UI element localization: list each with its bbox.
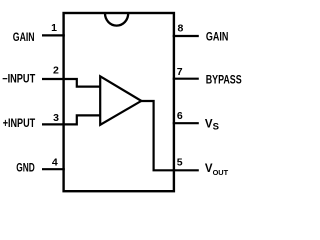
svg-text:VS: VS	[205, 118, 219, 132]
pin-1 end notch	[105, 13, 128, 25]
svg-text:8: 8	[178, 23, 184, 35]
svg-text:4: 4	[52, 157, 58, 169]
svg-text:−INPUT: −INPUT	[2, 74, 35, 86]
svg-text:6: 6	[177, 110, 183, 122]
svg-text:VOUT: VOUT	[205, 163, 229, 177]
pin 7 lead	[173, 78, 199, 80]
IC U1 DIP-8 package body	[64, 13, 174, 191]
svg-text:2: 2	[53, 64, 59, 76]
pin 2 lead and internal wire to inverting input	[42, 79, 101, 87]
svg-text:5: 5	[177, 156, 183, 168]
svg-text:7: 7	[177, 66, 183, 78]
svg-text:3: 3	[53, 112, 59, 124]
svg-text:BYPASS: BYPASS	[206, 75, 242, 87]
svg-text:GND: GND	[16, 163, 35, 175]
pin 6 lead	[173, 122, 199, 124]
pin 4 lead	[42, 168, 65, 170]
svg-text:GAIN: GAIN	[13, 32, 35, 44]
op-amp A1 triangle	[100, 76, 141, 125]
pin 8 lead	[173, 35, 199, 37]
svg-text:+INPUT: +INPUT	[3, 118, 36, 130]
pin 3 lead and internal wire to non-inverting input	[42, 115, 101, 124]
pin 5 lead	[174, 169, 199, 171]
pin 1 lead	[42, 34, 65, 36]
svg-text:GAIN: GAIN	[206, 32, 229, 44]
svg-text:1: 1	[51, 22, 57, 34]
wire: op-amp output to pin 5	[140, 101, 175, 170]
